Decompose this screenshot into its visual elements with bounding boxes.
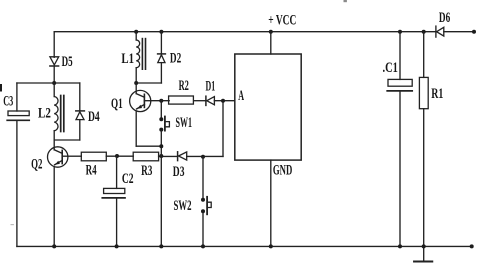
node junction D5/C3/L2/D4: [52, 81, 56, 85]
wire D5 to junction: [53, 66, 55, 83]
inductor L2: [54, 83, 64, 132]
node bottom rail SW1 line: [159, 244, 163, 248]
transistor Q1: [130, 83, 151, 146]
wire horizontal C3 to D4: [17, 82, 80, 84]
transistor Q2: [48, 147, 68, 247]
node bottom rail SW2 line: [201, 244, 205, 248]
wire C3 top: [16, 83, 18, 111]
node top rail junction C1: [398, 30, 402, 34]
resistor R2: [169, 96, 194, 104]
wire R3 to junction: [159, 155, 178, 157]
wire L1/D2 bottom link: [136, 82, 161, 84]
switch SW1: [159, 101, 169, 156]
diode D5: [50, 57, 59, 66]
node bottom rail Q2 emitter: [52, 244, 56, 248]
node bottom rail right end: [470, 244, 474, 248]
svg-text:D4: D4: [88, 109, 100, 125]
svg-text:SW1: SW1: [176, 115, 193, 131]
resistor R4: [81, 152, 106, 161]
wire SW1 line down to bottom rail: [160, 156, 162, 246]
wire C3 bottom to rail corner: [16, 121, 18, 247]
diode D1: [206, 96, 215, 105]
svg-text:D1: D1: [206, 79, 216, 95]
svg-text:SW2: SW2: [174, 198, 192, 214]
diode D3: [178, 152, 187, 161]
resistor R1: [419, 32, 428, 262]
node junction base/SW1: [159, 99, 163, 103]
svg-text:Q2: Q2: [31, 156, 42, 172]
wire D5 branch from rail: [53, 32, 55, 58]
scan artifact faint plus left: [11, 224, 14, 225]
capacitor C3: [7, 111, 29, 120]
capacitor C1: [387, 32, 412, 247]
left edge scan mark: [0, 84, 2, 92]
svg-text:C3: C3: [3, 93, 13, 109]
node bottom rail C1: [398, 244, 402, 248]
svg-text:+ VCC: + VCC: [268, 12, 296, 28]
svg-text:A: A: [238, 88, 244, 104]
svg-text:L1: L1: [121, 51, 134, 67]
wire Q2 base to R4: [68, 155, 82, 157]
svg-text:C2: C2: [122, 171, 134, 187]
diode D6: [436, 26, 444, 37]
wire D3 to SW2 junction to vertical: [187, 155, 223, 157]
IC block U1: [235, 54, 301, 160]
svg-text:.C1: .C1: [383, 60, 398, 76]
svg-text:R1: R1: [431, 86, 443, 102]
wire IC GND pin: [270, 160, 272, 246]
ground bar under R1: [414, 261, 432, 263]
node top rail junction L1: [134, 30, 138, 34]
svg-text:Q1: Q1: [111, 96, 123, 112]
svg-text:D3: D3: [173, 164, 185, 180]
wire R2 to D1: [194, 100, 206, 102]
node junction C2: [115, 154, 119, 158]
wire IC supply pin: [270, 32, 272, 54]
node bottom rail R1: [422, 244, 426, 248]
node junction L1/D2/Q1: [134, 81, 138, 85]
svg-text:R4: R4: [86, 162, 97, 178]
wire L2/D4 loop bottom: [54, 139, 80, 141]
svg-text:L2: L2: [38, 106, 51, 122]
node junction R3/D3/SW1: [159, 154, 163, 158]
wire D1 to A pin: [214, 100, 234, 102]
resistor R3: [133, 152, 158, 161]
node bottom rail C2: [115, 244, 119, 248]
svg-text:R2: R2: [179, 78, 189, 94]
node bottom rail GND pin: [269, 244, 273, 248]
switch SW2: [201, 156, 211, 246]
svg-text:GND: GND: [273, 163, 292, 179]
diode D4: [76, 83, 85, 140]
svg-text:D5: D5: [62, 54, 73, 70]
wire R4 to C2 junction to R3: [106, 155, 133, 157]
wire vertical D1 node down: [222, 101, 224, 157]
wire L2 bottom to Q2: [53, 131, 55, 148]
inductor L1: [136, 32, 145, 83]
svg-text:D2: D2: [170, 51, 181, 67]
capacitor C2: [102, 156, 125, 246]
wire top VCC rail: [54, 31, 436, 33]
node right end of top rail: [472, 30, 476, 34]
node junction D1 output: [221, 99, 225, 103]
svg-text:D6: D6: [439, 10, 450, 26]
wire bottom rail: [17, 245, 472, 247]
node junction SW2: [201, 155, 205, 159]
svg-text:R3: R3: [141, 163, 152, 179]
diode D2: [158, 32, 166, 83]
wire top rail right of D6: [444, 31, 474, 33]
wire Q1 emitter link to SW1 line: [136, 145, 161, 147]
node top rail junction D2: [159, 30, 163, 34]
node top rail junction R1: [422, 30, 426, 34]
scan artifact top center: [344, 0, 347, 2]
node top rail junction IC supply: [269, 30, 273, 34]
wire Q1 base to R2: [150, 100, 169, 102]
node junction emitter/SW1: [159, 144, 163, 148]
